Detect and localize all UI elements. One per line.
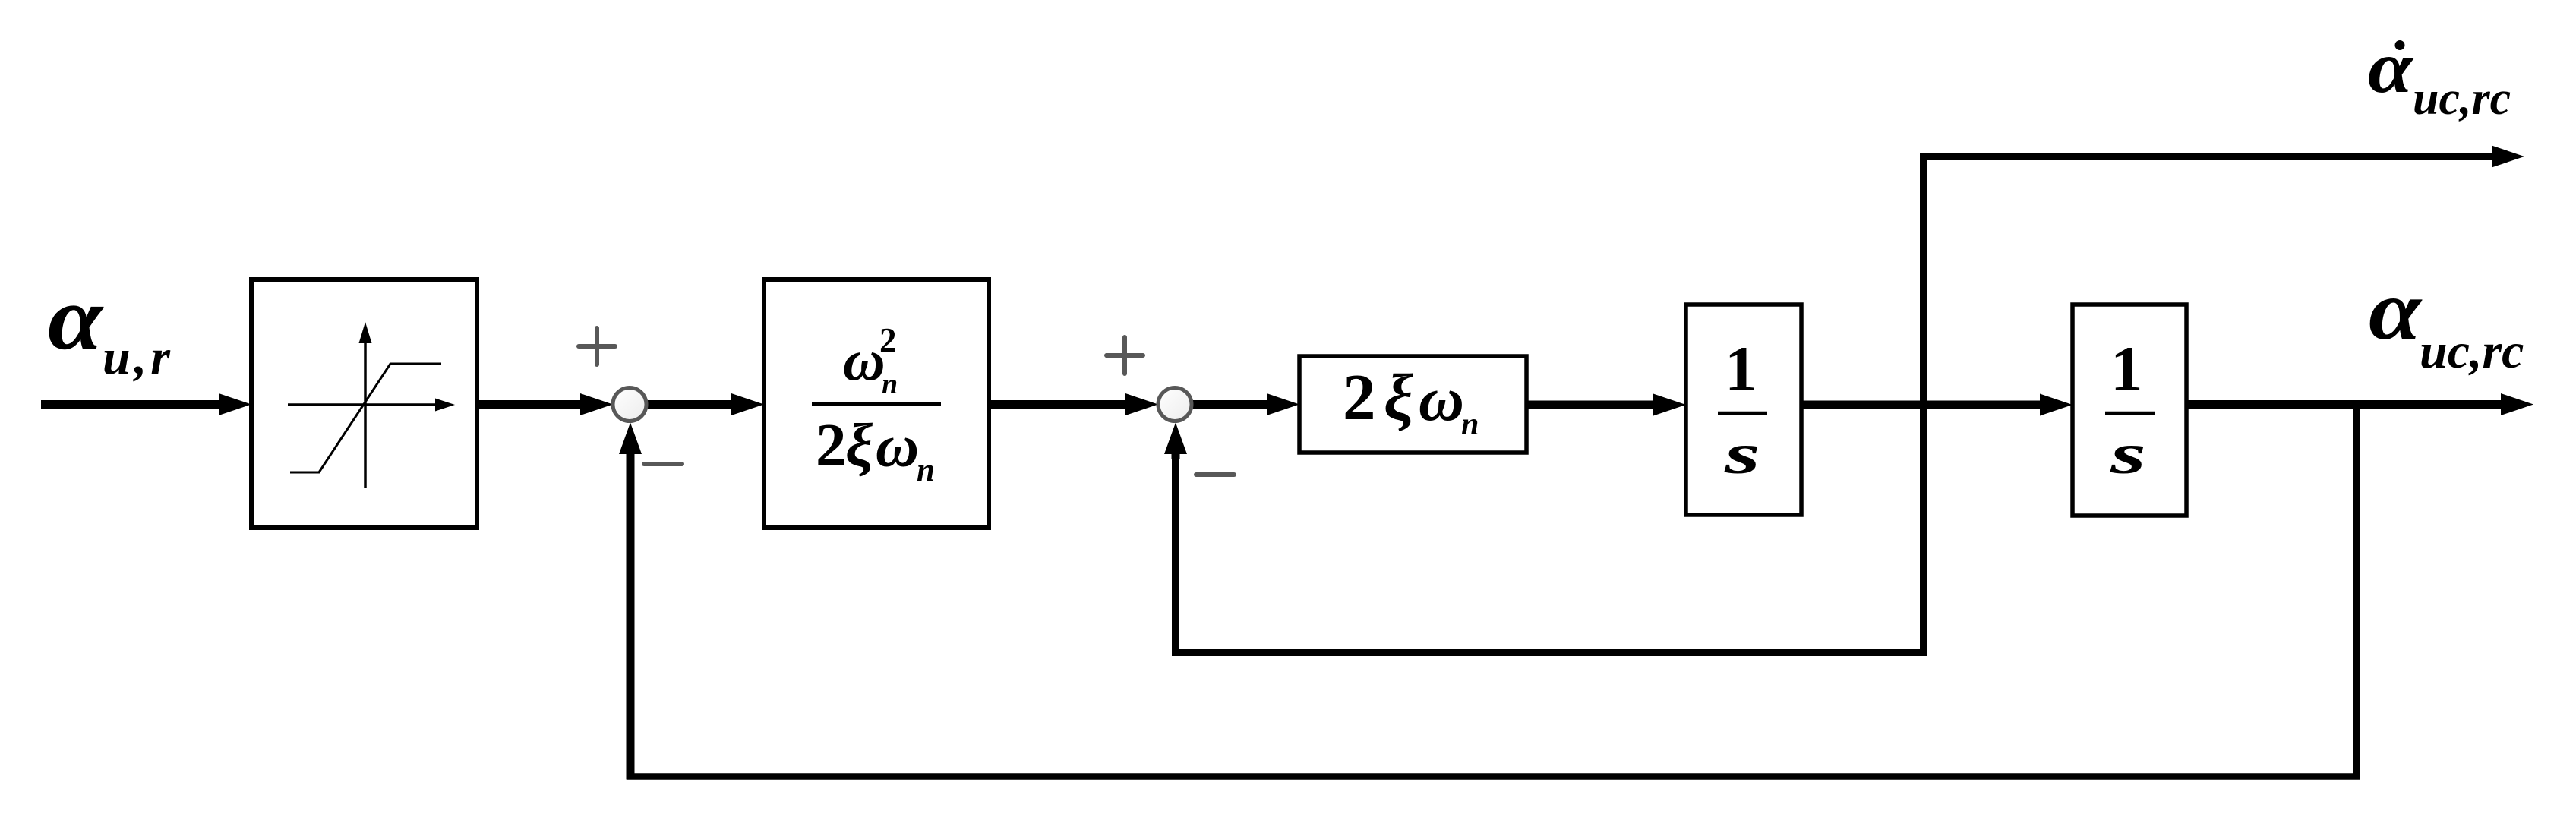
svg-text:1: 1 [2110, 333, 2143, 405]
svg-text:ω: ω [876, 414, 919, 480]
svg-text:n: n [917, 453, 935, 488]
svg-text:s: s [1723, 423, 1760, 486]
svg-text:α: α [2369, 264, 2423, 358]
svg-text:uc,rc: uc,rc [2413, 73, 2511, 125]
svg-text:n: n [1461, 407, 1479, 442]
svg-text:ω: ω [1419, 364, 1464, 434]
svg-text:2: 2 [1343, 360, 1376, 434]
svg-text:α: α [48, 267, 104, 368]
svg-text:n: n [882, 368, 898, 400]
svg-text:u,r: u,r [103, 330, 174, 385]
svg-text:1: 1 [1725, 333, 1757, 405]
svg-text:α: α [2368, 27, 2413, 108]
svg-text:2: 2 [816, 411, 847, 479]
svg-text:s: s [2109, 423, 2146, 486]
svg-text:ξ: ξ [1384, 360, 1413, 434]
svg-text:ξ: ξ [845, 411, 873, 479]
svg-text:2: 2 [879, 321, 897, 359]
svg-text:uc,rc: uc,rc [2420, 323, 2524, 379]
